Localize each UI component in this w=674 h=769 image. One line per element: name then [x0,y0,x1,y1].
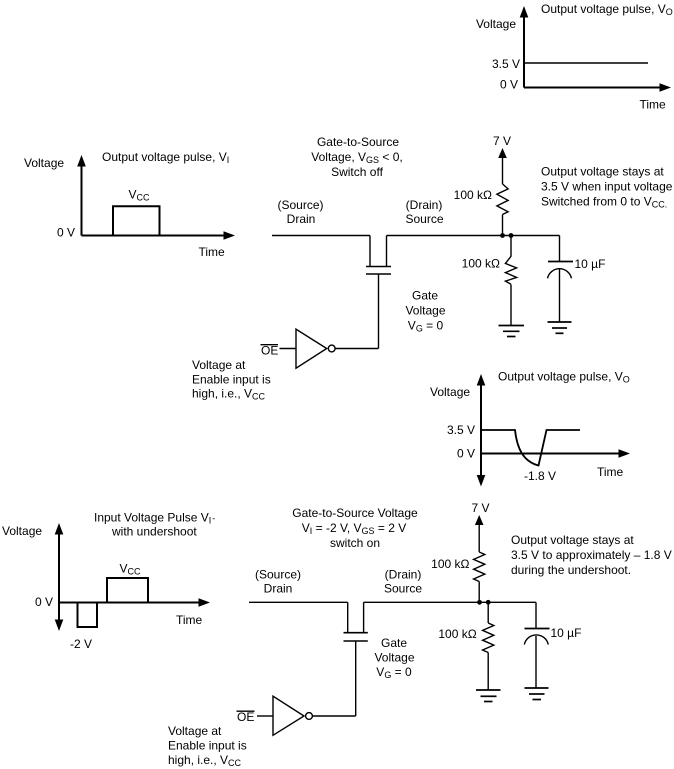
svg-text:100 kΩ: 100 kΩ [454,188,492,202]
circuit1 wire: node to capacitor [559,236,561,262]
svg-text:Time: Time [199,245,226,259]
svg-text:100 kΩ: 100 kΩ [431,557,469,571]
svg-text:Gate-to-Source Voltage: Gate-to-Source Voltage [292,506,418,520]
transistor Q1 (MOSFET switch) [366,236,391,275]
ground (below C2) [525,688,549,700]
svg-text:Output voltage stays at: Output voltage stays at [541,164,664,178]
node: circuit2 output junction dots [477,600,491,605]
circuit2 gate label: Gate Voltage Vg = 0 [374,636,414,680]
svg-text:(Source): (Source) [255,568,301,582]
circuit1 gate label: Gate Voltage Vg = 0 [405,289,445,334]
resistor R4 100 kOhm (pull-down, circuit2) [483,623,494,653]
inverter U2 (circuit2) [273,696,312,735]
svg-text:Voltage: Voltage [374,651,414,665]
svg-text:Source: Source [405,212,443,226]
resistor R2 100 kOhm (pull-down, circuit1) [505,256,516,284]
circuit1 wire: OE to inverter [280,348,297,350]
svg-text:Time: Time [597,465,624,479]
svg-text:Time: Time [640,98,667,112]
transistor Q2 (MOSFET switch) [344,602,368,641]
svg-text:Voltage: Voltage [24,156,64,170]
svg-text:OE: OE [261,344,278,358]
svg-text:Drain: Drain [287,212,316,226]
svg-text:VG = 0: VG = 0 [376,665,412,680]
svg-text:Output voltage stays at: Output voltage stays at [511,533,634,547]
circuit2 wire: OE to inverter [257,715,273,717]
graph A time axis [524,83,671,92]
circuit2 wire: R3 to node [478,582,480,603]
svg-text:Drain: Drain [264,582,293,596]
ground (below R4) [476,690,501,702]
circuit1 wire: source lead to node [387,235,560,237]
svg-text:Voltage: Voltage [430,385,470,399]
circuit2 note: Voltage at Enable input is high [168,724,247,768]
circuit1 wire: left drain lead [272,235,370,237]
resistor R1 100 kOhm (pull-up, circuit1) [497,184,508,215]
svg-text:Voltage: Voltage [405,304,445,318]
svg-text:Gate: Gate [381,636,407,650]
circuit1 note: Voltage at Enable input is high [192,358,271,402]
circuit2 wire: node to R4 [487,602,489,623]
circuit1 wire: gate lead [378,274,380,349]
svg-text:3.5 V: 3.5 V [492,57,520,71]
svg-text:0 V: 0 V [57,226,75,240]
circuit2 caption Gate-to-Source Voltage Vi=-2V Vgs=2V switch on [292,506,418,550]
svg-text:Output voltage pulse, VO: Output voltage pulse, VO [541,2,673,17]
graph C output trace with undershoot dip [481,430,580,466]
capacitor C1 10 uF (circuit1) [548,262,574,323]
circuit2 wire: node to capacitor [535,602,537,628]
svg-text:during the undershoot.: during the undershoot. [511,563,631,577]
circuit1 caption Gate-to-Source Voltage, Vgs < 0, Switch off [311,135,402,179]
svg-text:Voltage at: Voltage at [192,358,246,372]
graph D undershoot pulse -2V [78,603,98,628]
graph D voltage axis (double arrow) [55,523,64,631]
svg-text:Switch off: Switch off [331,165,383,179]
svg-text:Time: Time [176,613,203,627]
graph A 3.5V output trace [524,62,648,64]
circuit1 terminal label (Drain) Source [405,198,443,226]
svg-text:Source: Source [384,582,422,596]
svg-text:Voltage, VGS < 0,: Voltage, VGS < 0, [311,150,402,165]
svg-text:Voltage: Voltage [2,524,42,538]
svg-text:3.5 V: 3.5 V [447,423,475,437]
svg-text:3.5 V when input voltage: 3.5 V when input voltage [541,179,673,193]
svg-text:Enable input is: Enable input is [168,739,247,753]
svg-text:Switched from 0 to VCC.: Switched from 0 to VCC. [541,194,667,209]
node: circuit1 output junction dots [500,233,513,238]
svg-text:Input Voltage Pulse VI-: Input Voltage Pulse VI- [94,511,215,526]
inverter U1 (circuit1) [296,329,335,368]
svg-text:10 µF: 10 µF [551,626,582,640]
circuit1 terminal label (Source) Drain [277,198,323,226]
svg-text:0 V: 0 V [457,447,475,461]
circuit2 wire: left drain lead [249,601,348,603]
circuit2 wire: R4 to ground [487,653,489,691]
svg-text:Voltage at: Voltage at [168,724,222,738]
circuit2 terminal label (Drain) Source [384,568,422,596]
ground (below C1) [548,322,572,333]
graph D title: Input Voltage Pulse Vi with undershoot [94,511,215,539]
circuit2 wire: source lead to node [364,601,536,603]
OE input label (circuit1) [261,344,279,358]
power supply 7 V (circuit1) [493,134,511,184]
svg-text:switch on: switch on [330,536,380,550]
svg-text:100 kΩ: 100 kΩ [462,257,500,271]
svg-text:(Drain): (Drain) [406,198,443,212]
circuit1 wire: R2 to ground [510,285,512,326]
svg-text:Voltage: Voltage [476,17,516,31]
svg-text:0 V: 0 V [35,595,53,609]
power supply 7 V (circuit2) [472,501,490,552]
graph D time axis [59,598,210,607]
svg-text:Enable input is: Enable input is [192,373,271,387]
circuit1 wire: R1 to node [502,215,504,236]
graph D Vcc pulse trace [107,578,148,603]
svg-text:0 V: 0 V [500,78,518,92]
svg-text:Output voltage pulse, VO: Output voltage pulse, VO [498,370,630,385]
graph A voltage axis [520,6,529,88]
OE input label (circuit2) [237,710,255,724]
graph B voltage axis [77,155,86,236]
svg-text:OE: OE [237,710,254,724]
svg-text:Output voltage pulse, VI: Output voltage pulse, VI [102,150,229,165]
circuit2 terminal label (Source) Drain [255,568,301,596]
svg-text:10 µF: 10 µF [575,257,606,271]
circuit1 note: output voltage stays at 3.5V [541,164,673,209]
graph C time axis [481,449,630,458]
svg-text:-1.8 V: -1.8 V [524,469,556,483]
resistor R3 100 kOhm (pull-up, circuit2) [474,552,485,582]
svg-text:3.5 V to approximately – 1.8 V: 3.5 V to approximately – 1.8 V [511,548,672,562]
svg-text:Gate-to-Source: Gate-to-Source [317,135,399,149]
circuit1 wire: node to R2 [510,236,512,257]
svg-text:(Drain): (Drain) [385,568,422,582]
svg-text:-2 V: -2 V [70,637,92,651]
svg-text:VG = 0: VG = 0 [408,319,444,334]
svg-text:(Source): (Source) [277,198,323,212]
capacitor C2 10 uF (circuit2) [524,629,549,689]
svg-text:VI = -2 V, VGS = 2 V: VI = -2 V, VGS = 2 V [302,521,407,536]
svg-text:7 V: 7 V [472,501,490,515]
circuit2 note: output voltage stays at 3.5V to -1.8V [511,533,672,577]
svg-text:7 V: 7 V [493,134,511,148]
circuit2 wire: gate lead [355,641,357,716]
graph B Vcc pulse trace [113,206,160,235]
svg-text:100 kΩ: 100 kΩ [438,627,476,641]
graph C voltage axis (double arrow) [477,374,486,487]
circuit1 wire: inverter output to gate [335,348,378,350]
svg-text:Gate: Gate [412,289,438,303]
ground (below R2) [499,326,525,337]
svg-text:with undershoot: with undershoot [111,525,197,539]
graph B time axis [82,231,236,240]
circuit2 wire: inverter output to gate [312,715,355,717]
